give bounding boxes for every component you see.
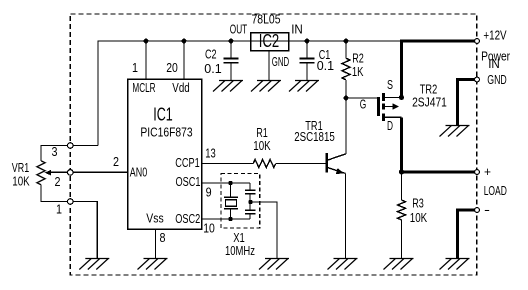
svg-text:GND: GND	[487, 72, 507, 87]
terminal VR1 pin2	[68, 170, 74, 176]
terminal LOAD plus	[475, 170, 480, 175]
svg-text:LOAD: LOAD	[484, 183, 507, 198]
svg-text:2SC1815: 2SC1815	[294, 129, 335, 144]
svg-text:C2: C2	[205, 47, 217, 62]
crystal X1	[224, 197, 238, 209]
junction gate node	[344, 96, 349, 101]
wiper arrow VR1	[45, 170, 68, 175]
svg-text:9: 9	[206, 185, 212, 200]
capacitor xtal top	[245, 190, 256, 194]
gate bar	[377, 97, 380, 116]
ground crystal	[259, 259, 289, 270]
wire R2 stems	[345, 41, 347, 98]
wire thick drain column	[400, 117, 403, 172]
capacitor C2 0.1	[224, 58, 239, 62]
terminal VR1 pin3	[68, 143, 74, 149]
svg-text:IN: IN	[291, 22, 303, 37]
ground IC2	[251, 81, 281, 92]
ground C1	[289, 81, 319, 92]
IC1 box	[128, 79, 202, 229]
wire thick +12V rail	[402, 41, 475, 42]
svg-text:IC1: IC1	[153, 105, 173, 125]
svg-text:OSC1: OSC1	[176, 174, 201, 189]
crystal X1 dashed box	[221, 174, 260, 229]
resistor VR1 10K	[37, 161, 45, 185]
svg-text:3: 3	[52, 144, 58, 159]
svg-text:PIC16F873: PIC16F873	[140, 125, 192, 140]
wire C1 stems	[306, 41, 308, 80]
wire OSC1 lead	[202, 183, 251, 190]
wire thick gnd terminal	[458, 80, 475, 126]
ground C2	[213, 81, 243, 92]
junction OSC2 xtal	[228, 217, 232, 221]
resistor R3 10K	[398, 200, 406, 220]
wire node1 to ground	[73, 202, 97, 259]
junction drain load node	[399, 169, 404, 174]
wire thick load minus	[458, 210, 475, 258]
ground node1	[79, 259, 109, 270]
svg-text:10K: 10K	[410, 210, 428, 225]
svg-text:+12V: +12V	[483, 28, 506, 43]
wire thick load plus	[402, 171, 475, 174]
svg-text:78L05: 78L05	[252, 12, 281, 27]
ground gnd terminal	[440, 126, 470, 137]
svg-text:20: 20	[166, 60, 178, 75]
wire drain lead	[385, 116, 402, 118]
wire thick source column	[400, 41, 403, 98]
svg-text:D: D	[387, 118, 393, 133]
transistor TR1 2SC1815	[327, 153, 346, 173]
junction C1 IN	[305, 39, 310, 44]
svg-text:2: 2	[113, 154, 119, 169]
junction OSC1 xtal	[228, 181, 232, 185]
terminal +12V	[475, 39, 480, 44]
wire base lead	[202, 163, 326, 165]
wire pin20 to rail	[183, 41, 185, 79]
svg-text:8: 8	[160, 230, 166, 245]
svg-text:-: -	[484, 202, 490, 217]
junction MCLR rail	[144, 39, 149, 44]
svg-text:MCLR: MCLR	[132, 80, 155, 95]
ground R3	[384, 259, 414, 270]
svg-text:2: 2	[55, 174, 61, 189]
wire Vss pin8	[155, 229, 157, 258]
svg-text:R3: R3	[412, 196, 424, 211]
wire AN0 lead	[73, 171, 127, 173]
svg-text:AN0: AN0	[130, 165, 147, 180]
junction source node	[399, 95, 404, 100]
svg-text:10K: 10K	[12, 174, 30, 189]
svg-text:13: 13	[205, 146, 216, 161]
svg-text:1K: 1K	[352, 64, 364, 79]
svg-text:10MHz: 10MHz	[225, 243, 255, 258]
wire R3 stems	[401, 172, 403, 258]
svg-text:1: 1	[56, 202, 62, 217]
ground Vss	[138, 259, 168, 270]
body arrow	[385, 106, 393, 108]
junction R2 rail	[344, 39, 349, 44]
IC2 box	[251, 33, 289, 51]
wire crystal ground run	[251, 202, 278, 258]
capacitor C1 0.1	[300, 58, 315, 62]
wire IC2 GND pin	[268, 50, 270, 80]
ground symbols	[79, 81, 469, 270]
svg-text:IC2: IC2	[259, 31, 279, 51]
wire cap mid branch	[249, 194, 251, 210]
wire VR1 top link	[41, 146, 68, 161]
svg-text:GND: GND	[272, 54, 289, 69]
svg-text:CCP1: CCP1	[175, 155, 200, 170]
svg-text:G: G	[360, 97, 367, 112]
svg-text:S: S	[387, 77, 393, 92]
wire OSC2 lead	[202, 214, 251, 219]
wire gate lead	[346, 97, 377, 99]
resistor R2 1K	[342, 58, 350, 80]
capacitor xtal bottom	[245, 210, 256, 214]
svg-text:2SJ471: 2SJ471	[412, 95, 447, 110]
wire crystal stems	[230, 183, 232, 219]
wire source lead	[385, 97, 402, 99]
wire C2 stems	[230, 41, 232, 80]
junction xtal caps mid	[248, 200, 252, 204]
junction C2 OUT	[229, 39, 234, 44]
dashed enclosure border	[70, 14, 477, 275]
ground load minus	[440, 259, 470, 270]
svg-text:10: 10	[203, 221, 215, 236]
channel segments	[382, 93, 385, 101]
emitter arrowhead TR1	[336, 168, 344, 174]
svg-text:0.1: 0.1	[317, 58, 334, 73]
svg-text:0.1: 0.1	[204, 61, 221, 76]
wire pin1 to rail	[145, 41, 147, 79]
svg-text:IN: IN	[488, 56, 500, 71]
svg-text:Vss: Vss	[146, 211, 164, 226]
wire collector drop	[345, 98, 347, 154]
wire top rail	[98, 41, 402, 146]
svg-text:OUT: OUT	[230, 22, 247, 37]
wire emitter vertical	[345, 173, 347, 258]
ground emitter	[328, 259, 358, 270]
terminal GND	[475, 77, 480, 82]
svg-text:OSC2: OSC2	[175, 211, 200, 226]
svg-text:+: +	[484, 164, 491, 179]
wire VR1 bottom link	[41, 185, 68, 201]
svg-text:10K: 10K	[253, 138, 271, 153]
svg-text:Vdd: Vdd	[172, 80, 189, 95]
svg-text:1: 1	[132, 60, 138, 75]
junction Vdd rail	[182, 39, 187, 44]
terminal VR1 pin1	[68, 199, 74, 205]
transistor TR2 2SJ471	[377, 93, 399, 121]
resistor R1 10K	[253, 160, 276, 168]
wire node3 into board	[73, 145, 98, 147]
terminal LOAD minus	[475, 208, 480, 213]
